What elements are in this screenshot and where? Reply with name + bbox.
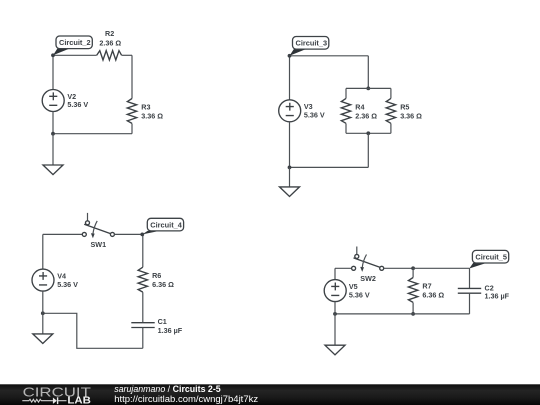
- CircuitLab logo wordmark LAB: [67, 396, 91, 405]
- wire: R7 top stub: [412, 268, 414, 277]
- CircuitLab logo resistor-diode glyph: [22, 397, 66, 404]
- wire: R7 bottom stub: [412, 303, 414, 314]
- label V4 value 5.36 V: [57, 272, 78, 289]
- wire: V2 bottom lead: [52, 112, 54, 134]
- svg-text:sarujanmano / Circuits 2-5: sarujanmano / Circuits 2-5: [114, 384, 221, 394]
- label R3 value 3.36 Ω: [141, 103, 163, 121]
- svg-text:6.36 Ω: 6.36 Ω: [152, 280, 174, 289]
- junction node (bottom-left of circuit 2): [51, 132, 55, 136]
- svg-text:5.36 V: 5.36 V: [349, 290, 370, 299]
- resistor R5: [386, 98, 395, 123]
- node Circuit_3 callout: [288, 37, 329, 58]
- wire: right rail lower: [131, 124, 133, 134]
- resistor R2: [97, 51, 122, 60]
- wire: bottom bar of parallel pair: [346, 132, 391, 134]
- label V2 value 5.36 V: [67, 92, 88, 109]
- wire: top rail: [290, 55, 369, 57]
- svg-text:3.36 Ω: 3.36 Ω: [141, 112, 163, 121]
- wire: C2 top lead: [469, 268, 471, 288]
- svg-text:5.36 V: 5.36 V: [304, 111, 325, 120]
- svg-text:R7: R7: [422, 282, 431, 291]
- junction node (R7 top): [411, 266, 415, 270]
- wire: top rail left of switch: [43, 233, 82, 235]
- node Circuit_5 callout: [469, 250, 508, 268]
- footer url line: [114, 394, 258, 405]
- resistor R6: [138, 267, 147, 292]
- capacitor C1: [131, 323, 154, 328]
- svg-text:2.36 Ω: 2.36 Ω: [99, 39, 121, 48]
- wire: drop from parallel pair to bottom rail: [367, 133, 369, 167]
- wire: ground stub: [334, 314, 336, 345]
- footer author / title line: [114, 384, 221, 394]
- switch SW2: [352, 247, 384, 272]
- wire: C2 bottom lead: [469, 293, 471, 314]
- CircuitLab logo wordmark CIRCUIT: [23, 385, 91, 400]
- wire: top rail left of switch: [335, 267, 352, 269]
- wire: R4 top stub: [345, 88, 347, 98]
- wire: V4 top lead: [42, 234, 44, 269]
- svg-text:1.36 µF: 1.36 µF: [485, 292, 510, 301]
- svg-text:Circuit_5: Circuit_5: [475, 253, 507, 262]
- wire: bottom return path: [43, 313, 143, 348]
- resistor R4: [341, 98, 350, 123]
- svg-text:5.36 V: 5.36 V: [57, 280, 78, 289]
- wire: top rail right of switch: [114, 233, 142, 235]
- label R5 value 3.36 Ω: [400, 103, 422, 121]
- wire: V4 bottom lead: [42, 291, 44, 313]
- junction node (V5 bottom): [333, 312, 337, 316]
- wire: ground stub: [289, 167, 291, 187]
- wire: R4 bottom stub: [345, 123, 347, 133]
- switch SW1: [82, 213, 114, 238]
- label V5 value 5.36 V: [349, 282, 370, 299]
- svg-text:3.36 Ω: 3.36 Ω: [400, 111, 422, 120]
- wire: top rail right segment R2 to corner: [122, 54, 132, 56]
- svg-text:http://circuitlab.com/cwngj7b4: http://circuitlab.com/cwngj7b4jt7kz: [114, 394, 258, 405]
- wire: right rail upper: [131, 55, 133, 98]
- voltage source V5: [324, 280, 346, 302]
- label R6 value 6.36 Ω: [152, 271, 174, 289]
- svg-text:R3: R3: [141, 103, 150, 112]
- label R4 value 2.36 Ω: [355, 103, 377, 121]
- label V3 value 5.36 V: [304, 102, 325, 119]
- wire: V5 top lead: [334, 268, 336, 279]
- wire: R5 top stub: [390, 88, 392, 98]
- junction node (bottom-left of circuit 3): [288, 166, 292, 170]
- junction node (top of parallel pair): [366, 87, 370, 91]
- wire: top rail R7 to corner: [413, 267, 469, 269]
- svg-text:Circuit_3: Circuit_3: [296, 39, 328, 48]
- wire: ground stub: [52, 134, 54, 165]
- svg-text:SW2: SW2: [360, 274, 376, 283]
- voltage source V2: [42, 90, 64, 112]
- ground (circuit 5): [325, 345, 345, 355]
- label R7 value 6.36 Ω: [422, 282, 444, 300]
- label C2 value 1.36 µF: [485, 284, 510, 301]
- svg-text:C1: C1: [158, 317, 167, 326]
- wire: R6 top stub: [142, 234, 144, 267]
- label SW2: [360, 274, 376, 283]
- resistor R7: [408, 278, 417, 303]
- label R2 value 2.36 Ω: [99, 29, 121, 48]
- wire: bottom rail: [335, 313, 470, 315]
- label C1 value 1.36 µF: [158, 317, 183, 335]
- svg-text:R2: R2: [105, 29, 114, 38]
- capacitor C2: [458, 288, 481, 293]
- wire: R6 to C1: [142, 292, 144, 323]
- svg-text:SW1: SW1: [91, 240, 107, 249]
- junction node (bottom of parallel pair): [366, 131, 370, 135]
- wire: V3 top lead: [289, 56, 291, 100]
- junction node (R7 bottom): [411, 312, 415, 316]
- wire: V5 bottom lead: [334, 302, 336, 314]
- wire: top rail switch to R7: [384, 267, 413, 269]
- wire: right drop to parallel pair: [367, 56, 369, 89]
- voltage source V3: [279, 100, 301, 122]
- svg-text:6.36 Ω: 6.36 Ω: [422, 290, 444, 299]
- ground (circuit 4): [33, 334, 53, 344]
- svg-text:R4: R4: [355, 103, 364, 112]
- svg-text:1.36 µF: 1.36 µF: [158, 326, 183, 335]
- wire: R5 bottom stub: [390, 123, 392, 133]
- node Circuit_4 callout: [140, 218, 183, 236]
- label SW1: [91, 240, 107, 249]
- voltage source V4: [32, 269, 54, 291]
- wire: C1 bottom lead: [142, 328, 144, 349]
- svg-text:LAB: LAB: [67, 396, 91, 405]
- wire: V2 top lead: [52, 55, 54, 89]
- resistor R3: [127, 99, 136, 124]
- wire: bottom rail: [53, 133, 132, 135]
- svg-text:2.36 Ω: 2.36 Ω: [355, 111, 377, 120]
- wire: ground stub: [42, 313, 44, 334]
- svg-text:Circuit_2: Circuit_2: [59, 38, 91, 47]
- wire: top bar of parallel pair: [346, 87, 391, 89]
- junction node (V4 bottom): [41, 311, 45, 315]
- wire: V3 bottom lead: [289, 122, 291, 168]
- svg-text:R6: R6: [152, 271, 161, 280]
- svg-text:5.36 V: 5.36 V: [67, 100, 88, 109]
- svg-text:R5: R5: [400, 103, 409, 112]
- ground (circuit 3): [280, 187, 300, 197]
- ground (circuit 2): [43, 165, 63, 175]
- wire: bottom rail: [290, 166, 369, 168]
- svg-text:Circuit_4: Circuit_4: [150, 220, 182, 229]
- node Circuit_2 callout: [51, 36, 92, 57]
- wire: top rail left segment V2 top to R2: [53, 54, 97, 56]
